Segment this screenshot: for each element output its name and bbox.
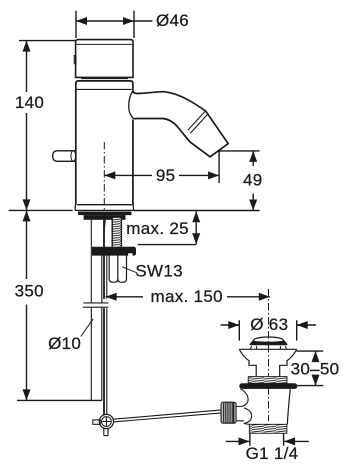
faucet body bbox=[76, 81, 133, 205]
faucet centerline bbox=[103, 142, 105, 218]
drain rubber washer (black) bbox=[239, 383, 297, 389]
dimension Ø63 lines bbox=[221, 324, 317, 326]
dimension 140 arrows bbox=[23, 41, 31, 211]
dimension Ø63 extension lines bbox=[239, 320, 296, 340]
dimension 49 arrows bbox=[249, 151, 257, 211]
drain plug dark band bbox=[249, 341, 287, 346]
drain knurled knob bbox=[221, 402, 236, 423]
lift rod right line bbox=[106, 256, 108, 415]
svg-text:max. 150: max. 150 bbox=[151, 287, 223, 306]
faucet handle left bbox=[53, 151, 76, 162]
svg-text:G1 1/4: G1 1/4 bbox=[246, 444, 299, 463]
svg-text:30–50: 30–50 bbox=[291, 360, 340, 379]
lift rod left line bbox=[103, 220, 105, 415]
lift rod diagonal detail bbox=[104, 219, 106, 247]
label Ø10 leader bbox=[81, 319, 93, 337]
ball joint bottom stub bbox=[104, 428, 108, 435]
dimension 49 extension line (horizontal at spout tip) bbox=[219, 150, 259, 152]
dimension G1 1/4 extension lines bbox=[250, 433, 284, 446]
dimension Ø46 arrows bbox=[76, 17, 134, 25]
dimension max.25 extension line bottom bbox=[138, 244, 197, 246]
dimension max.150 arrows bbox=[106, 293, 270, 301]
mounting stud thread (hatched) bbox=[112, 218, 121, 247]
drain centerline bbox=[268, 289, 270, 421]
faucet body edge concave arc at spout bbox=[129, 91, 134, 119]
dimension G1 1/4 lines bbox=[226, 440, 309, 442]
faucet base bbox=[75, 200, 134, 210]
dimension 350 arrows bbox=[23, 210, 31, 400]
dimension 95 arrows bbox=[104, 171, 219, 179]
faucet cap left notch bbox=[74, 56, 76, 64]
deck line right bbox=[134, 210, 260, 212]
drain plug dome bbox=[250, 337, 287, 345]
drain plug rim feet bbox=[250, 346, 286, 349]
dimension Ø46 extension lines bbox=[76, 11, 134, 38]
dimension 140 extension line top bbox=[19, 40, 76, 42]
dimension 30-50 line bbox=[315, 351, 317, 386]
dimension Ø46 line bbox=[76, 20, 153, 22]
dimension G1 1/4 arrows bbox=[239, 437, 296, 445]
dimension 30-50 arrows bbox=[312, 351, 320, 386]
mounting nut (black) bbox=[92, 247, 136, 256]
svg-text:95: 95 bbox=[156, 166, 176, 185]
svg-text:350: 350 bbox=[15, 282, 44, 301]
pop-up linkage rod bbox=[113, 410, 221, 422]
supply pipe Ø10 right line bbox=[101, 256, 103, 401]
faucet body seam line bbox=[76, 88, 132, 90]
svg-text:140: 140 bbox=[15, 93, 44, 112]
dimension 140 line bbox=[26, 41, 28, 211]
svg-text:SW13: SW13 bbox=[135, 262, 183, 281]
drain body bottom to thread bbox=[244, 423, 250, 426]
ball joint left clamp stub bbox=[93, 420, 100, 424]
drain lower thread G1 1/4 (hatched) bbox=[249, 424, 287, 433]
dimension 95 line bbox=[104, 174, 219, 176]
dimension max.150 line bbox=[106, 296, 270, 298]
svg-text:max. 25: max. 25 bbox=[126, 219, 189, 238]
svg-text:Ø 63: Ø 63 bbox=[250, 315, 288, 334]
drain flange top bbox=[239, 348, 296, 350]
faucet base gasket (black) bbox=[78, 212, 132, 220]
supply pipe Ø10 left line bbox=[90, 220, 92, 401]
faucet cap bbox=[76, 40, 133, 78]
label SW13 leader bbox=[122, 267, 137, 273]
dimension max.25 double arrow bbox=[195, 211, 197, 244]
svg-text:Ø46: Ø46 bbox=[156, 11, 189, 30]
drain flange body sides bbox=[239, 350, 296, 377]
drain lower body right edge bbox=[287, 389, 290, 424]
faucet neck line bbox=[81, 78, 128, 80]
drain body rod boss lower bulge bbox=[244, 408, 252, 423]
drain body knob collar lines bbox=[236, 407, 245, 421]
svg-text:49: 49 bbox=[243, 170, 263, 189]
dimension 49 line bbox=[252, 151, 254, 211]
dimension 95 extension line (spout tip vertical) bbox=[218, 151, 220, 183]
dimension 350 line bbox=[26, 210, 28, 400]
dimension 30-50 extension lines bbox=[289, 351, 323, 386]
faucet spout seam lines bbox=[188, 111, 208, 133]
hex SW13 bbox=[109, 255, 126, 283]
drain lower body left edge upper bulge bbox=[241, 389, 249, 407]
dimension 350 extension line bottom bbox=[17, 399, 102, 401]
drain upper thread (hatched) bbox=[248, 377, 287, 384]
faucet spout bbox=[133, 91, 228, 157]
svg-text:Ø10: Ø10 bbox=[48, 334, 81, 353]
linkage ball joint bbox=[99, 414, 113, 428]
dimension Ø63 arrows bbox=[228, 321, 307, 329]
pipe break marks bbox=[83, 303, 109, 307]
deck line left bbox=[9, 209, 73, 211]
